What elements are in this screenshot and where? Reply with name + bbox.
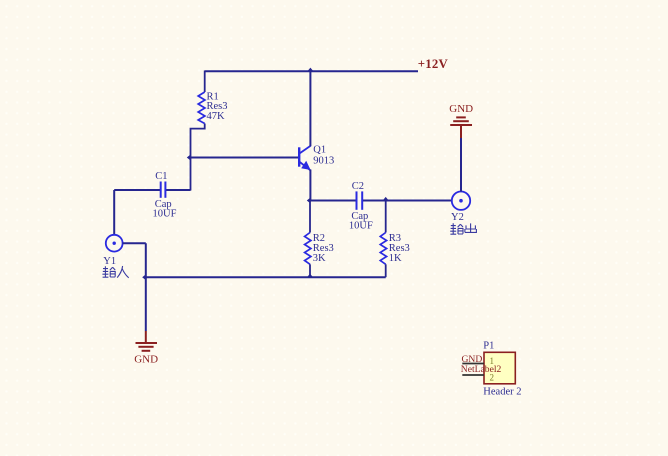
svg-text:3K: 3K [313, 253, 326, 264]
svg-text:10UF: 10UF [153, 208, 177, 219]
node junction at Y1 ground tap [142, 274, 146, 280]
svg-text:GND: GND [462, 354, 483, 365]
transistor Q1 [299, 145, 334, 171]
connector P1 (Header 2) [461, 341, 522, 398]
wire base wire [191, 157, 299, 159]
capacitor C2 [349, 181, 373, 232]
ground GND (top right, inverted) [449, 103, 473, 138]
svg-text:Y2: Y2 [451, 212, 464, 223]
svg-text:Header 2: Header 2 [483, 387, 521, 398]
wire Y2 up to ground [460, 138, 462, 192]
node junction at R3 top [383, 197, 389, 201]
resistor R3 [380, 201, 410, 278]
svg-text:+12V: +12V [418, 57, 449, 71]
node junction at base branch [187, 155, 191, 161]
ground GND (bottom left) [134, 331, 158, 366]
label 输入 (input) [102, 266, 128, 278]
wire Y1 to ground branch [123, 243, 146, 331]
wire Y1 drop [113, 190, 115, 235]
svg-text:9013: 9013 [313, 155, 334, 166]
pin 1 [462, 363, 484, 365]
label 输出 (output) [450, 223, 476, 234]
svg-text:Q1: Q1 [313, 145, 326, 156]
svg-text:C2: C2 [352, 181, 364, 192]
svg-text:47K: 47K [207, 111, 226, 122]
svg-text:1K: 1K [389, 253, 402, 264]
resistor R1 [191, 71, 228, 191]
svg-text:NetLabel2: NetLabel2 [461, 364, 502, 375]
svg-text:GND: GND [134, 354, 158, 366]
wire collector [309, 71, 311, 146]
wire output node rail [310, 200, 451, 202]
connector Y2 [451, 192, 470, 224]
svg-text:Y1: Y1 [103, 256, 116, 267]
svg-text:GND: GND [449, 103, 473, 115]
svg-text:C1: C1 [155, 171, 167, 182]
node junction at R2 bottom [307, 274, 313, 278]
power port +12V [418, 57, 449, 71]
wire bottom rail [146, 276, 386, 278]
node junction at emitter [307, 198, 311, 204]
wire +12V rail [205, 70, 418, 72]
connector Y1 [103, 235, 122, 267]
capacitor C1 [114, 171, 190, 219]
svg-text:P1: P1 [483, 341, 494, 352]
wire emitter [309, 170, 311, 201]
pin 2 [462, 374, 484, 376]
resistor R2 [305, 201, 334, 277]
node junction on +12V rail [307, 68, 313, 72]
svg-text:10UF: 10UF [349, 221, 373, 232]
